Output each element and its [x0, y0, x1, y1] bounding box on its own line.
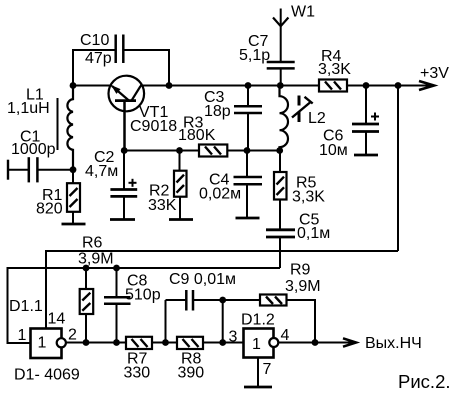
- wire C9 left lead: [165, 300, 167, 343]
- svg-text:1: 1: [38, 335, 47, 352]
- ground R2: [169, 218, 193, 221]
- wire R9 left lead: [223, 299, 260, 301]
- svg-text:510p: 510p: [125, 287, 161, 304]
- svg-text:5,1p: 5,1p: [239, 47, 270, 64]
- +3V arrowhead: [419, 81, 434, 90]
- inductor L1 core line: [57, 98, 59, 150]
- node rail A dot right: [395, 82, 402, 89]
- logic gate D1.1 box: [31, 329, 62, 359]
- svg-text:1000p: 1000p: [11, 141, 56, 158]
- svg-text:R6: R6: [82, 235, 103, 252]
- logic gate D1.1 output bubble: [57, 338, 66, 347]
- wire C1 to node A: [37, 169, 73, 171]
- wire R1 to ground: [72, 212, 74, 224]
- wire C10 loop left vertical: [72, 50, 74, 86]
- node rail C dot C9 right: [219, 339, 226, 346]
- wire C9 right lead down: [222, 300, 224, 343]
- resistor R3 body: [199, 145, 227, 157]
- inductor L2 coil: [280, 86, 289, 151]
- capacitor C2 plates: [110, 190, 137, 197]
- node rail B dot L2: [276, 147, 283, 154]
- inductor L2 trimmer arrow: [292, 97, 313, 118]
- svg-text:R9: R9: [290, 262, 311, 279]
- node rail B dot C4: [244, 147, 251, 154]
- capacitor C6 plates: [352, 124, 379, 132]
- wire +3V rail down right side: [397, 86, 399, 252]
- wire output arrow line: [315, 342, 353, 344]
- wire R6 top lead: [85, 268, 87, 289]
- wire C9 top right: [193, 299, 223, 301]
- wire R8 to D1.2: [203, 342, 244, 344]
- resistor R2 body: [174, 171, 187, 197]
- wire R9 right lead: [287, 300, 316, 343]
- svg-text:2: 2: [68, 327, 77, 344]
- wire input to C1: [8, 169, 29, 171]
- wire R3 to L2 bottom: [227, 150, 279, 152]
- wire D1.1 output to R7: [66, 342, 126, 344]
- node rail A dot C3: [245, 82, 252, 89]
- wire C10 loop top left: [72, 49, 116, 51]
- wire R5 to C5: [279, 200, 281, 230]
- capacitor C5 plates: [266, 230, 295, 237]
- resistor R9 hatch: [266, 297, 282, 305]
- resistor R3 hatch: [205, 147, 221, 155]
- wire collector rail y=85.5 from transistor to R4: [140, 85, 319, 87]
- ground C6: [354, 154, 378, 157]
- capacitor C4 plates: [234, 177, 263, 184]
- resistor R9 body: [260, 295, 287, 306]
- svg-text:33K: 33K: [148, 197, 177, 214]
- wire R2 top lead: [179, 151, 181, 171]
- inductor L1 coil: [67, 86, 73, 170]
- transistor VT1 base bar: [115, 99, 136, 102]
- svg-text:3,9M: 3,9M: [285, 278, 321, 295]
- svg-text:14: 14: [48, 311, 66, 328]
- wire C8 bottom lead: [116, 304, 118, 343]
- svg-text:1: 1: [252, 336, 261, 353]
- svg-text:C9 0,01м: C9 0,01м: [169, 271, 236, 288]
- svg-text:D1- 4069: D1- 4069: [14, 367, 80, 384]
- wire C4 top lead: [246, 151, 248, 178]
- svg-text:Вых.НЧ: Вых.НЧ: [365, 335, 422, 352]
- wire C5 bottom lead crossing wire1: [279, 237, 281, 268]
- svg-text:47p: 47p: [85, 50, 112, 67]
- node rail B dot R2: [176, 147, 183, 154]
- node rail C dot R6: [83, 339, 90, 346]
- capacitor C3 plates: [234, 106, 262, 113]
- svg-text:330: 330: [124, 365, 151, 382]
- resistor R5 body: [274, 172, 287, 200]
- resistor R1 body: [67, 183, 80, 212]
- capacitor C7 plates: [267, 62, 295, 68]
- svg-text:4,7м: 4,7м: [85, 163, 118, 180]
- wire C7 to rail: [280, 68, 282, 85]
- svg-text:Рис.2.: Рис.2.: [398, 371, 450, 392]
- capacitor C1 plates: [29, 157, 38, 182]
- svg-text:4: 4: [281, 327, 290, 344]
- resistor R4 body: [319, 80, 347, 92]
- wire R6 bottom lead: [85, 314, 87, 343]
- wire W1 supply rail to pin14 (wire1 y=251): [46, 251, 398, 329]
- transistor VT1 base lead: [123, 101, 126, 151]
- node wire2 dot R6: [83, 265, 90, 272]
- resistor R8 hatch: [183, 339, 199, 347]
- node rail A dot C6: [363, 82, 370, 89]
- resistor R4 hatch: [325, 82, 341, 90]
- svg-text:3,3K: 3,3K: [292, 189, 325, 206]
- svg-text:10м: 10м: [319, 142, 348, 159]
- wire C9 top left: [166, 299, 187, 301]
- node rail C dot C8: [113, 339, 120, 346]
- resistor R7 body: [126, 337, 152, 349]
- svg-text:18p: 18p: [204, 103, 231, 120]
- wire feedback wire2 y=268: [8, 268, 281, 343]
- transistor VT1 emitter diagonal: [112, 86, 129, 101]
- svg-text:0,02м: 0,02м: [199, 186, 241, 203]
- wire node A to R1: [72, 170, 74, 184]
- logic gate D1.2 box: [244, 329, 274, 358]
- wire C3 bottom lead: [247, 113, 249, 151]
- svg-text:3: 3: [229, 329, 238, 346]
- wire C4 bottom lead: [246, 184, 248, 218]
- antenna W1 vee: [273, 18, 288, 27]
- resistor R6 hatch: [82, 293, 90, 311]
- node output dot: [312, 339, 319, 346]
- resistor R7 hatch: [132, 339, 148, 347]
- logic gate D1.2 output bubble: [269, 338, 278, 347]
- svg-text:3,3K: 3,3K: [318, 61, 351, 78]
- antenna W1 stem: [280, 9, 282, 62]
- capacitor C9 plates: [186, 290, 193, 311]
- resistor R5 hatch: [277, 177, 285, 195]
- svg-text:390: 390: [178, 365, 205, 382]
- svg-text:+3V: +3V: [420, 65, 449, 82]
- svg-text:C10: C10: [80, 32, 109, 49]
- node rail B dot base: [121, 147, 128, 154]
- wire base rail y=150.5: [125, 150, 200, 152]
- wire R7 to R8: [152, 342, 177, 344]
- svg-text:3,9M: 3,9M: [78, 251, 114, 268]
- node A dot C1/L1/R1: [70, 166, 77, 173]
- ground R1: [62, 223, 86, 226]
- svg-text:W1: W1: [291, 4, 315, 21]
- wire C6 bottom lead: [365, 132, 367, 156]
- resistor R8 body: [177, 337, 203, 349]
- svg-text:180K: 180K: [178, 127, 216, 144]
- svg-text:D1.1: D1.1: [9, 298, 43, 315]
- node rail A dot 1: [70, 82, 77, 89]
- svg-text:0,1м: 0,1м: [297, 225, 330, 242]
- wire collector rail y=85.5 left segment: [73, 85, 112, 87]
- node rail A dot C10: [166, 82, 173, 89]
- transistor VT1 emitter arrow: [111, 85, 121, 94]
- svg-text:1,1uH: 1,1uH: [7, 100, 50, 117]
- capacitor C6 plus sign: [371, 113, 379, 121]
- capacitor C10 plates: [116, 35, 124, 64]
- node rail A dot antenna: [277, 82, 284, 89]
- transistor VT1 collector diagonal: [132, 86, 141, 101]
- resistor R1 hatch: [70, 188, 78, 207]
- ground C2: [110, 218, 135, 221]
- svg-text:D1.2: D1.2: [241, 312, 275, 329]
- wire +3V feed from R4 to arrow: [347, 85, 431, 87]
- inductor L2 core segments: [298, 96, 301, 123]
- ground C4: [236, 217, 260, 220]
- wire C6 top lead: [365, 86, 367, 124]
- resistor R2 hatch: [177, 175, 185, 193]
- wire C8 top lead: [116, 268, 118, 297]
- capacitor C2 plus sign: [129, 179, 137, 187]
- svg-text:7: 7: [263, 361, 272, 378]
- node rail C dot C9 left: [162, 339, 169, 346]
- capacitor C8 plates: [104, 297, 131, 303]
- wire D1.2 pin7 lead: [257, 358, 259, 388]
- wire C10 loop right vertical: [168, 49, 170, 86]
- node C9/R9 corner dot: [219, 297, 226, 304]
- svg-text:1: 1: [18, 327, 27, 344]
- ground D1.2 pin7: [244, 386, 272, 389]
- wire C2 top lead: [123, 151, 125, 190]
- svg-text:820: 820: [36, 201, 63, 218]
- input terminal bar: [7, 160, 9, 180]
- output arrowhead: [343, 338, 356, 346]
- svg-text:L2: L2: [308, 110, 326, 127]
- wire C3 top lead: [247, 86, 249, 107]
- wire R2 to ground: [179, 197, 181, 220]
- wire D1.2 output to node: [278, 342, 315, 344]
- wire C2 bottom lead: [123, 196, 125, 219]
- svg-text:C9018: C9018: [130, 118, 177, 135]
- transistor VT1 circle: [109, 76, 145, 112]
- node wire2 dot C8: [113, 265, 120, 272]
- wire R5 top lead: [279, 151, 281, 173]
- wire C10 loop top right: [124, 49, 170, 51]
- resistor R6 body: [80, 289, 94, 314]
